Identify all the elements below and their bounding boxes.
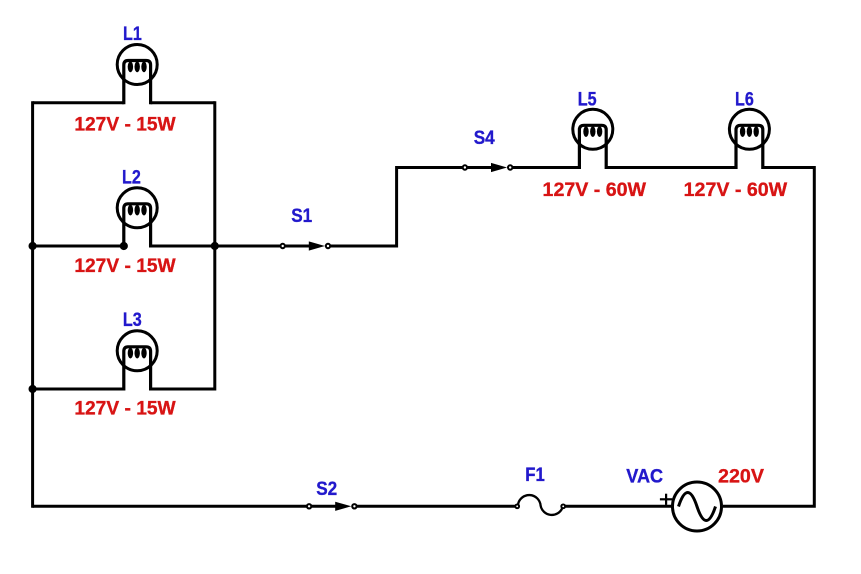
switch S1 [281,241,331,250]
wire L1 row right [151,101,215,104]
svg-text:L5: L5 [578,89,597,111]
svg-text:S1: S1 [291,205,312,227]
svg-text:VAC: VAC [626,466,663,488]
svg-text:127V - 60W: 127V - 60W [684,179,788,201]
node dot left rail / L2 row [28,242,36,250]
wire bottom row left [33,505,307,508]
wire L2 row right [151,245,215,248]
lamp L1 [117,44,157,104]
svg-text:L6: L6 [735,89,754,111]
svg-text:220V: 220V [718,466,764,488]
wire L6 to right rail corner and down [723,168,814,507]
svg-text:L3: L3 [123,309,142,331]
node dot right rail / L2 row [211,242,219,250]
node dot L2 left leg [120,242,128,250]
svg-text:L1: L1 [123,23,142,45]
wire S1 to riser corner [330,168,462,247]
svg-text:S2: S2 [316,478,337,500]
svg-text:127V - 60W: 127V - 60W [543,179,647,201]
lamp L6 [729,109,769,169]
svg-text:127V - 15W: 127V - 15W [74,114,176,136]
switch S4 [463,163,513,172]
svg-text:127V - 15W: 127V - 15W [74,398,176,420]
wire L2 row to S1 [215,245,281,248]
wire S2 to fuse [357,505,515,508]
svg-text:127V - 15W: 127V - 15W [74,255,176,277]
wire L3 row left [33,388,124,391]
svg-text:S4: S4 [474,127,495,149]
wire L3 row right [151,388,215,391]
fuse F1 [515,495,565,515]
switch S2 [307,502,357,511]
wire L1 row left [33,101,124,104]
wire L2 row left [33,245,124,248]
node dot left rail / L3 row [28,385,36,393]
source VAC [673,482,722,531]
lamp L5 [573,109,613,169]
wire L5 to L6 [606,166,736,169]
source VAC plus sign [660,494,672,505]
wire fuse to source [566,505,674,508]
wire S4 to L5 [512,166,579,169]
lamp L3 [117,331,157,391]
wire right rail of lamp block [213,101,216,390]
lamp L2 [117,188,157,248]
wire left rail [31,101,34,508]
svg-text:L2: L2 [122,167,141,189]
svg-text:F1: F1 [525,464,545,486]
